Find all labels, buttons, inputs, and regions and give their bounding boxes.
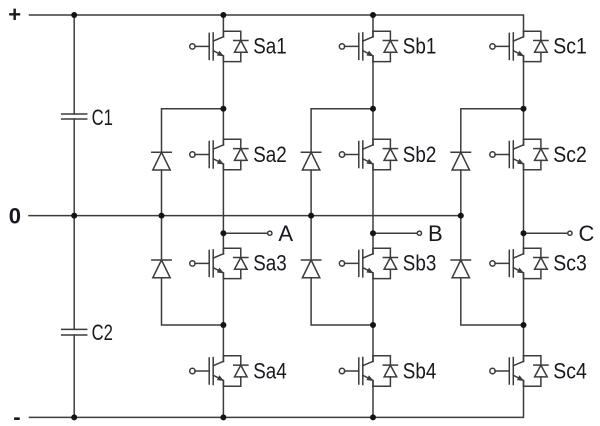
wire: leg a Sa4 emitter to bottom rail [222, 381, 224, 418]
svg-text:Sa4: Sa4 [253, 358, 287, 383]
wire: 0 neutral rail [29, 215, 461, 217]
svg-text:Sb1: Sb1 [403, 34, 437, 59]
terminal circle B [417, 231, 421, 235]
diode Dc2 (clamp lower) [451, 260, 470, 278]
transistor Sc3 (IGBT with antiparallel diode) [490, 248, 548, 278]
capacitor C2 [62, 329, 87, 335]
node: leg b output B [370, 230, 376, 236]
svg-text:C: C [579, 221, 595, 246]
terminal circle C [568, 231, 572, 235]
transistor Sa2 (IGBT with antiparallel diode) [190, 139, 248, 169]
transistor Sb1 (IGBT with antiparallel diode) [339, 31, 397, 61]
node: leg b S3/S4 midpoint [370, 322, 376, 328]
wire: leg a top rail to Sa1 collector [222, 15, 224, 37]
wire: clamp branch c middle (0 tap) [460, 170, 462, 260]
node: leg a S3/S4 midpoint [220, 322, 226, 328]
wire: clamp branch a upper horizontal [162, 109, 224, 152]
diode Db2 (clamp lower) [301, 260, 320, 278]
wire: output lead C [524, 232, 568, 234]
node: + rail junction x=223 [220, 12, 226, 18]
wire: - bottom rail [30, 381, 524, 418]
transistor Sa1 (IGBT with antiparallel diode) [190, 31, 248, 61]
svg-text:B: B [428, 221, 443, 246]
diode Db1 (clamp upper) [301, 152, 320, 170]
wire: leg c Sc1 emitter to Sc2 collector (node) [523, 56, 525, 145]
wire: output lead B [373, 232, 417, 234]
svg-text:+: + [8, 2, 21, 27]
node: + rail junction x=74 [71, 12, 77, 18]
wire: clamp branch a middle (0 tap) [161, 170, 163, 260]
svg-text:Sa3: Sa3 [253, 251, 287, 276]
node: - rail junction x=74 [71, 414, 77, 420]
wire: clamp branch b middle (0 tap) [310, 170, 312, 260]
wire: clamp branch b lower horizontal [311, 278, 373, 325]
diode Da2 (clamp lower) [152, 260, 171, 278]
svg-text:C2: C2 [92, 320, 113, 345]
svg-text:A: A [278, 221, 293, 246]
node: - rail junction x=373 [370, 414, 376, 420]
wire: leg a Sa1 emitter to Sa2 collector (node) [222, 56, 224, 145]
wire: leg b Sb1 emitter to Sb2 collector (node) [372, 56, 374, 145]
transistor Sa4 (IGBT with antiparallel diode) [190, 356, 248, 386]
node: leg c S3/S4 midpoint [521, 322, 527, 328]
wire: clamp branch a lower horizontal [162, 278, 224, 325]
svg-text:Sc3: Sc3 [553, 251, 587, 276]
wire: leg a Sa2 emitter to Sa3 collector [222, 164, 224, 254]
svg-text:Sb3: Sb3 [403, 251, 437, 276]
svg-text:0: 0 [9, 203, 21, 228]
svg-text:Sa1: Sa1 [253, 34, 287, 59]
wire: leg b Sb2 emitter to Sb3 collector [372, 164, 374, 254]
wire: output lead A [223, 232, 267, 234]
diode Da1 (clamp upper) [152, 152, 171, 170]
wire: clamp branch b upper horizontal [311, 109, 373, 152]
transistor Sb4 (IGBT with antiparallel diode) [339, 356, 397, 386]
node: 0 rail junction x=162 [159, 213, 165, 219]
svg-text:Sc2: Sc2 [553, 142, 587, 167]
transistor Sc2 (IGBT with antiparallel diode) [490, 139, 548, 169]
wire: leg b Sb4 emitter to bottom rail [372, 381, 374, 418]
node: 0 rail junction x=461 [458, 213, 464, 219]
svg-text:Sb2: Sb2 [403, 142, 437, 167]
wire: leg c Sc3 emitter to Sc4 collector (node) [523, 273, 525, 362]
wire: clamp branch c lower horizontal [461, 278, 524, 325]
wire: C1 to 0 to C2 [73, 119, 75, 329]
node: - rail junction x=223 [220, 414, 226, 420]
wire: leg a Sa3 emitter to Sa4 collector (node) [222, 273, 224, 362]
transistor Sb2 (IGBT with antiparallel diode) [339, 139, 397, 169]
transistor Sc1 (IGBT with antiparallel diode) [490, 31, 548, 61]
svg-text:Sc4: Sc4 [553, 358, 587, 383]
svg-text:Sb4: Sb4 [403, 358, 437, 383]
node: leg c S1/S2 midpoint [521, 106, 527, 112]
svg-text:C1: C1 [92, 105, 113, 130]
svg-text:Sa2: Sa2 [253, 142, 287, 167]
node: 0 rail junction x=311 [308, 213, 314, 219]
wire: C2 to - rail [73, 335, 75, 417]
svg-text:-: - [13, 405, 20, 426]
wire: DC bus left, + to C1 [73, 15, 75, 114]
transistor Sc4 (IGBT with antiparallel diode) [490, 356, 548, 386]
node: + rail junction x=373 [370, 12, 376, 18]
wire: clamp branch c upper horizontal [461, 109, 524, 152]
transistor Sa3 (IGBT with antiparallel diode) [190, 248, 248, 278]
node: 0 rail junction x=74 [71, 213, 77, 219]
node: leg a S1/S2 midpoint [220, 106, 226, 112]
node: leg b S1/S2 midpoint [370, 106, 376, 112]
wire: + top rail [30, 15, 524, 37]
wire: leg c Sc2 emitter to Sc3 collector [523, 164, 525, 254]
node: leg c output C [521, 230, 527, 236]
svg-text:Sc1: Sc1 [553, 34, 587, 59]
wire: leg b top rail to Sb1 collector [372, 15, 374, 37]
terminal circle A [268, 231, 272, 235]
wire: leg b Sb3 emitter to Sb4 collector (node) [372, 273, 374, 362]
capacitor C1 [62, 114, 87, 119]
node: leg a output A [220, 230, 226, 236]
diode Dc1 (clamp upper) [451, 152, 470, 170]
transistor Sb3 (IGBT with antiparallel diode) [339, 248, 397, 278]
